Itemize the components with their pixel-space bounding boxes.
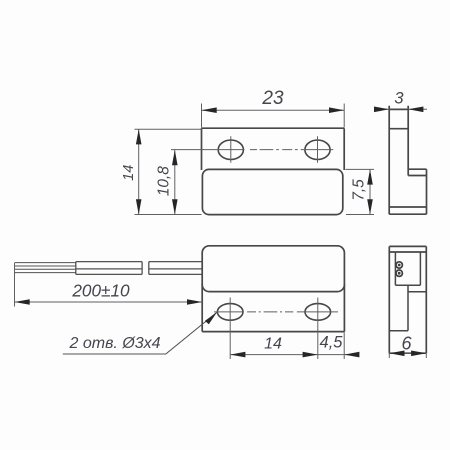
inner connector box xyxy=(395,252,420,285)
centerline through holes (upper view) xyxy=(171,149,333,151)
centerline through holes (lower view) xyxy=(214,311,338,313)
dimension 23 xyxy=(202,104,345,128)
dimension 14 (left) xyxy=(135,129,202,214)
svg-text:14: 14 xyxy=(264,335,282,352)
svg-text:10,8: 10,8 xyxy=(156,166,173,196)
wire cross-section circles xyxy=(396,262,402,277)
body outline (rounded) upper view xyxy=(202,169,342,214)
svg-text:14: 14 xyxy=(121,165,137,181)
plate visible part (lower view) xyxy=(202,284,344,332)
svg-text:23: 23 xyxy=(261,88,284,109)
outer outline xyxy=(389,246,426,353)
hole right (lower view) xyxy=(305,304,331,321)
svg-text:2 отв. Ø3х4: 2 отв. Ø3х4 xyxy=(69,335,161,352)
L-profile outline xyxy=(389,106,426,214)
cable jacket piece 1 xyxy=(76,262,142,275)
svg-text:3: 3 xyxy=(394,90,404,108)
dimension 10,8 xyxy=(174,150,176,215)
inner step lines xyxy=(389,285,426,331)
plate outline (23x14) xyxy=(202,128,345,170)
svg-text:4,5: 4,5 xyxy=(320,334,344,352)
hole crosshair verticals (upper view) xyxy=(231,136,318,163)
svg-text:200±10: 200±10 xyxy=(71,281,130,301)
dimension 4,5 xyxy=(318,332,359,359)
dimension 3 xyxy=(375,108,428,110)
dimension 6 xyxy=(389,353,426,358)
hole left (lower view) xyxy=(217,304,243,321)
body outline (rounded) lower view xyxy=(202,246,344,292)
hole crosshair verticals + extension lines (lower view) xyxy=(230,298,318,360)
hole left (upper view) xyxy=(218,140,243,159)
svg-text:6: 6 xyxy=(401,334,412,354)
leader 2 отв. Ø3x4 xyxy=(63,313,217,355)
dimension 14 (bottom) xyxy=(230,354,318,356)
cable jacket piece 2 xyxy=(149,262,202,275)
svg-text:7,5: 7,5 xyxy=(351,179,368,201)
hole right (upper view) xyxy=(305,140,330,159)
dimension 200±10 xyxy=(15,263,203,307)
cable bare wires xyxy=(15,263,76,273)
dimension 7,5 (right of upper view) xyxy=(346,169,375,214)
